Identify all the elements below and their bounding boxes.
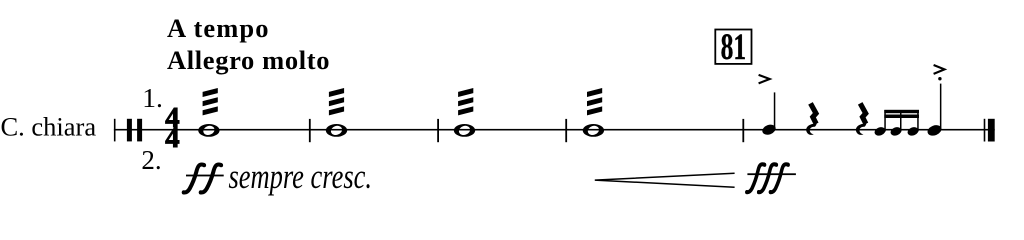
rehearsal mark box: [715, 30, 751, 64]
final barline thick: [988, 119, 995, 142]
crescendo hairpin: [595, 173, 735, 187]
accent over final note: [934, 65, 945, 74]
begin barline thin: [114, 119, 116, 142]
svg-text:81: 81: [721, 26, 747, 67]
measure 4 whole note: [583, 124, 604, 137]
measure 2 whole note: [326, 124, 347, 137]
measure 1 whole note: [198, 124, 219, 137]
staccato dot over final note: [938, 77, 941, 80]
dynamic ff: [182, 163, 224, 194]
sixteenth note 3 stem: [917, 110, 919, 131]
measure 2 tremolo: [329, 88, 344, 115]
final barline thin: [984, 119, 986, 142]
begin barline thick 2: [137, 119, 142, 142]
staff line: [114, 129, 995, 131]
final note notehead: [926, 123, 943, 137]
svg-text:1.: 1.: [142, 82, 163, 113]
dynamic fff: [745, 163, 796, 194]
barline 4: [565, 119, 567, 142]
quarter note 1 stem: [774, 92, 776, 130]
barline 3: [437, 119, 439, 142]
svg-text:sempre cresc.: sempre cresc.: [229, 157, 373, 196]
beam lower: [884, 115, 919, 119]
svg-text:4: 4: [165, 122, 180, 154]
accent over quarter note 1: [759, 75, 770, 84]
begin barline thick 1: [127, 119, 132, 142]
svg-text:C. chiara: C. chiara: [1, 112, 97, 142]
quarter rest 1: [806, 103, 817, 135]
barline 5: [742, 119, 744, 142]
sixteenth note 2 stem: [900, 110, 902, 131]
svg-text:2.: 2.: [141, 145, 161, 175]
final note stem: [940, 84, 942, 131]
svg-text:A tempo: A tempo: [167, 13, 269, 43]
svg-text:Allegro molto: Allegro molto: [167, 45, 330, 75]
measure 4 tremolo: [587, 88, 602, 115]
measure 1 tremolo: [203, 88, 218, 115]
sixteenth note 1 notehead: [873, 126, 886, 137]
sixteenth note 3 notehead: [906, 126, 919, 137]
measure 3 whole note: [454, 124, 475, 137]
quarter rest 2: [856, 103, 867, 135]
sixteenth note 2 notehead: [889, 126, 902, 137]
measure 3 tremolo: [458, 88, 473, 115]
sixteenth note 1 stem: [884, 110, 886, 131]
barline 2: [309, 119, 311, 142]
beam upper: [884, 110, 919, 113]
quarter note 1 notehead: [761, 123, 777, 137]
